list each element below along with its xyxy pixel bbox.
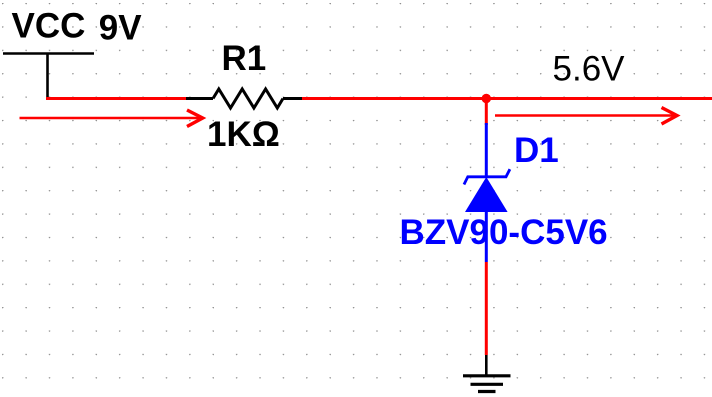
diode D1 lead top (blue) [485,123,488,178]
junction node [482,94,491,103]
ground symbol [463,376,511,392]
resistor R1 [186,89,303,108]
diode D1 lead bottom (blue) [485,212,488,262]
svg-text:9V: 9V [99,8,142,47]
zener triangle [465,177,508,212]
svg-text:R1: R1 [222,39,267,78]
wire VCC to R1 (red) [46,97,188,100]
svg-text:D1: D1 [514,131,559,170]
current arrow right [495,108,677,125]
zener cathode bar [464,169,510,184]
wire node down (red) [485,99,488,126]
ground stem (black) [485,355,488,375]
svg-text:1KΩ: 1KΩ [207,115,280,154]
wire R1 to right edge (red) [302,97,712,100]
VCC power rail symbol [3,53,94,100]
svg-text:BZV90-C5V6: BZV90-C5V6 [400,213,608,252]
svg-text:VCC: VCC [12,6,86,45]
svg-text:5.6V: 5.6V [553,50,626,89]
wire diode to ground (red) [485,262,488,355]
current arrow left [20,110,203,127]
